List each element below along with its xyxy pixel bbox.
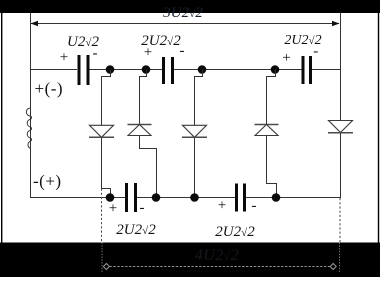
node F (152, 193, 161, 202)
capacitor C1 (78, 55, 81, 85)
extension dashed left black part (101, 243, 103, 274)
node H (272, 193, 281, 202)
node D (271, 65, 280, 74)
svg-text:-: - (93, 46, 98, 62)
svg-text:+: + (60, 50, 68, 66)
svg-text:+(-): +(-) (35, 79, 64, 98)
wire bottom row seg3 (246, 197, 340, 199)
extension dashed right black part (339, 243, 341, 274)
node A (106, 65, 115, 74)
svg-text:-(+): -(+) (33, 172, 62, 191)
diode D5 (329, 121, 353, 133)
arrowhead right top (332, 21, 340, 26)
inductor L (26, 108, 31, 149)
wire bottom row seg1 (30, 197, 125, 199)
svg-text:+: + (144, 45, 152, 61)
capacitor C3 (302, 56, 305, 84)
capacitor C5 (235, 184, 238, 212)
arrowhead right bottom (open diamond) (330, 264, 336, 270)
arrowhead left top (31, 21, 39, 26)
node E (106, 193, 115, 202)
node B (142, 65, 151, 74)
svg-text:2U2√2: 2U2√2 (215, 224, 255, 240)
capacitor C2 (162, 57, 165, 84)
svg-text:4U2√2: 4U2√2 (195, 247, 239, 264)
wire top row seg3 (174, 69, 302, 71)
svg-text:-: - (313, 44, 318, 60)
svg-text:-: - (180, 43, 185, 59)
wire column 3 (195, 70, 203, 198)
wire top row seg1 (30, 69, 77, 71)
dimension line bottom dashed (110, 266, 331, 268)
diode D4 (255, 124, 279, 126)
extension dashed right white part (339, 198, 341, 243)
dimension line top (31, 23, 339, 25)
svg-text:+: + (282, 50, 290, 66)
svg-text:3U2√2: 3U2√2 (162, 5, 203, 21)
extension dashed left white part (101, 189, 103, 243)
svg-text:+: + (218, 198, 226, 214)
wire column 1 (102, 70, 111, 198)
diode D1 (90, 125, 114, 137)
arrowhead left bottom (open diamond) (103, 264, 109, 270)
svg-text:2U2√2: 2U2√2 (116, 222, 156, 238)
wire column 4 (267, 70, 277, 198)
svg-text:-: - (140, 200, 145, 216)
capacitor C4 (125, 183, 128, 212)
wire bottom row seg2 (137, 197, 235, 199)
svg-text:-: - (252, 198, 257, 214)
node G (190, 193, 199, 202)
node C (198, 65, 207, 74)
wire left branch (30, 13, 32, 198)
svg-text:+: + (109, 201, 117, 217)
wire column 2 (140, 70, 157, 198)
wire top row seg4 (312, 69, 340, 71)
diode D2 (128, 124, 152, 126)
diode D3 (183, 125, 207, 137)
wire right branch (340, 13, 342, 198)
wire top row seg2 (90, 69, 163, 71)
